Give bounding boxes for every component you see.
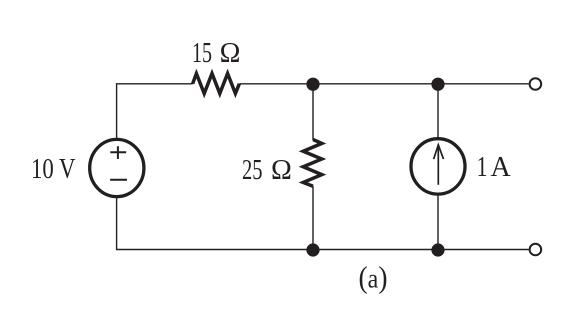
svg-text:25Ω: 25Ω: [242, 155, 292, 186]
svg-text:15Ω: 15Ω: [192, 38, 240, 69]
svg-text:1A: 1A: [477, 152, 512, 183]
svg-text:(a): (a): [359, 260, 388, 295]
svg-text:10 V: 10 V: [31, 154, 76, 185]
